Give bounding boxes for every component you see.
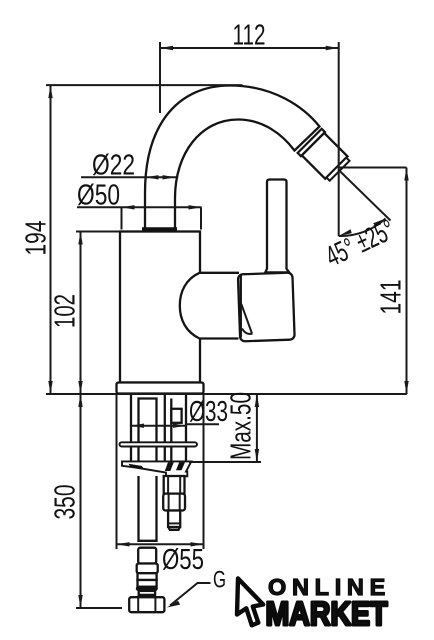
cartridge housing bulge (180, 273, 239, 339)
dimension Ø22 (81, 150, 176, 182)
label G 3/8 (167, 567, 226, 608)
aerator body (302, 133, 348, 179)
stud collar (164, 476, 185, 494)
svg-text:350: 350 (50, 485, 82, 520)
dimension Ø50 (77, 180, 202, 230)
stud end stub (168, 511, 180, 528)
svg-text:194: 194 (21, 221, 53, 256)
base plate (117, 383, 204, 394)
hose nut G3/8 (129, 597, 164, 612)
hose neck (141, 595, 154, 597)
deck reference line (46, 393, 407, 395)
supply tube upper (139, 399, 157, 462)
svg-text:MARKET: MARKET (266, 596, 388, 633)
supply tube lower (139, 476, 157, 541)
svg-text:G: G (213, 567, 226, 594)
svg-text:141: 141 (376, 280, 408, 315)
hose section 4 (138, 580, 157, 587)
threaded stud rod (164, 395, 166, 462)
aerator band (298, 129, 325, 156)
svg-text:Ø22: Ø22 (92, 150, 135, 182)
handle wedge notch (241, 304, 252, 334)
dimension 102 (50, 232, 121, 395)
spout and riser pipe (145, 86, 320, 232)
hose section 3 (138, 573, 157, 580)
lever stick (265, 180, 289, 273)
svg-text:102: 102 (50, 294, 82, 328)
dimension Max.50 (189, 392, 261, 462)
dimension Ø33 (131, 396, 228, 428)
svg-text:Ø50: Ø50 (77, 180, 120, 212)
svg-text:45° ±25°: 45° ±25° (321, 214, 400, 273)
shank Ø33 right edge (185, 395, 187, 462)
hose crimp dark band (136, 586, 158, 591)
dimension 350 (50, 394, 123, 608)
svg-text:Ø33: Ø33 (189, 396, 228, 428)
dimension Ø55 (117, 394, 205, 576)
dimension 141 (339, 168, 409, 395)
mounting clamp bracket (122, 461, 191, 476)
stud nut (163, 494, 185, 511)
svg-text:112: 112 (233, 20, 266, 52)
svg-text:Ø55: Ø55 (162, 544, 204, 576)
hose section 6 (139, 591, 155, 595)
logo cursor icon (237, 579, 263, 626)
aerator tip plate (326, 158, 349, 181)
handle grip body (238, 273, 295, 342)
hose section 1 (138, 548, 156, 564)
dimension 194 (21, 85, 243, 394)
svg-text:Max.50: Max.50 (226, 392, 258, 460)
angle 45 deg rays (321, 170, 400, 273)
shank Ø33 left edge (130, 395, 132, 462)
faucet body cylinder (120, 232, 200, 383)
spout joint thick band (142, 227, 177, 231)
dimension 112 (160, 20, 339, 237)
mounting washer plate (120, 442, 198, 446)
hose section 2 (137, 564, 158, 574)
stud fitting block (171, 409, 181, 423)
handle joint double line (240, 275, 242, 338)
